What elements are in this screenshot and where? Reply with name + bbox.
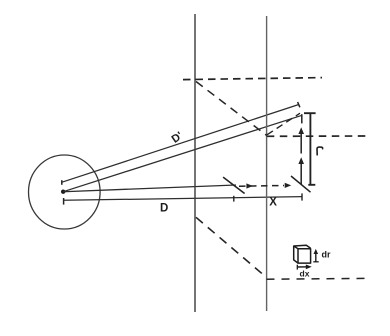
dimension dx xyxy=(297,265,311,270)
volume element cube xyxy=(294,245,311,263)
tick D-prime lower end xyxy=(301,114,303,123)
screen 1 xyxy=(194,14,196,312)
label r xyxy=(317,147,323,155)
ray D-prime upper xyxy=(62,105,298,183)
bottom dashed axis xyxy=(267,277,369,280)
svg-text:D: D xyxy=(160,202,168,214)
dimension bracket r xyxy=(304,113,316,185)
tick D-prime upper end xyxy=(298,102,300,107)
source circle xyxy=(29,155,101,229)
bottom dashed diagonal xyxy=(196,217,266,277)
dashed diagonal top xyxy=(196,82,267,136)
screen 2 xyxy=(266,16,268,311)
mirror slash 1 xyxy=(223,177,245,193)
mirror slash 2 xyxy=(291,176,311,192)
tick lower source xyxy=(63,198,65,205)
tick baseline end xyxy=(301,193,303,200)
dashed diagonal to image point xyxy=(267,113,300,135)
ray D-prime lower xyxy=(63,115,302,191)
dashed axis middle right xyxy=(267,135,369,137)
ray D upper xyxy=(63,185,236,192)
arrow up A xyxy=(298,127,304,153)
arrow up B xyxy=(298,157,304,184)
svg-text:dx: dx xyxy=(300,268,310,278)
baseline D-X xyxy=(64,197,303,201)
tick upper source xyxy=(61,180,63,185)
svg-text:X: X xyxy=(269,197,277,209)
tick baseline mid xyxy=(233,196,235,202)
svg-text:dr: dr xyxy=(322,250,331,260)
dashed axis top xyxy=(183,78,322,80)
source dot xyxy=(61,190,65,194)
dimension dr xyxy=(313,249,318,262)
dashed beam arrow xyxy=(239,183,291,189)
